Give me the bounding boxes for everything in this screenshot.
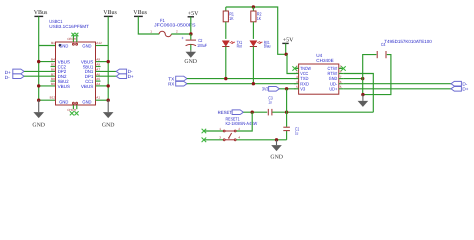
net flag D+ (far left) xyxy=(5,69,24,75)
svg-text:RESET: RESET xyxy=(218,110,233,115)
svg-text:GND: GND xyxy=(32,123,45,129)
svg-text:100uF: 100uF xyxy=(197,43,207,48)
power flag VBus (above A-side) xyxy=(103,10,117,17)
pin stub SBU2 xyxy=(51,80,56,82)
svg-text:VBUS: VBUS xyxy=(58,84,70,89)
wire A1 stub xyxy=(96,99,109,101)
svg-text:1: 1 xyxy=(150,30,152,34)
svg-text:JFC0603-0500FS: JFC0603-0500FS xyxy=(154,23,196,28)
node junction VBus-A4 xyxy=(107,84,110,87)
svg-text:2: 2 xyxy=(238,127,240,131)
node junction R2 top xyxy=(252,5,255,8)
svg-text:GND: GND xyxy=(184,59,197,65)
net flag D- (far left) xyxy=(5,74,24,80)
no-connect X switch pin1 xyxy=(202,129,207,134)
wire +5V to VCC pin xyxy=(287,54,296,73)
LED TX1 Rot xyxy=(222,40,242,79)
svg-text:D-: D- xyxy=(5,75,10,80)
wire +5V rail above R1 R2 xyxy=(226,7,287,54)
wire GND pin xyxy=(344,78,363,80)
resistor R1 1K xyxy=(223,7,234,39)
node junction RX1-RXD xyxy=(252,82,255,85)
svg-text:UD+: UD+ xyxy=(329,86,337,91)
wire VBus left rail xyxy=(38,16,40,100)
wire 3V3 to V3 pin xyxy=(279,88,295,90)
svg-text:VBus: VBus xyxy=(103,10,117,16)
svg-text:B6: B6 xyxy=(51,68,55,72)
no-connect X shield pin top xyxy=(71,33,75,37)
ground GND (below C2) xyxy=(184,50,197,65)
node junction switch drop xyxy=(251,111,254,114)
capacitor C1 1u xyxy=(283,127,299,140)
svg-text:3V3: 3V3 xyxy=(262,86,269,91)
svg-text:1: 1 xyxy=(219,127,221,131)
svg-text:CH340E: CH340E xyxy=(316,58,333,63)
power flag +5V (main) xyxy=(188,11,199,34)
svg-text:RX: RX xyxy=(168,82,174,87)
no-connect X CTS# xyxy=(341,66,346,71)
wire A12 stub xyxy=(96,45,109,47)
ground (below U4) xyxy=(358,95,369,107)
svg-text:GND: GND xyxy=(59,99,69,104)
svg-text:V3: V3 xyxy=(300,86,305,91)
svg-text:T495D157K010ATE100: T495D157K010ATE100 xyxy=(384,39,432,44)
wire B12 stub xyxy=(39,99,56,101)
svg-text:Rot: Rot xyxy=(237,44,243,49)
connector USBC1 USB3.1C16PF5MT xyxy=(49,19,102,112)
wire RTS# to reset line xyxy=(344,74,374,113)
svg-text:Blau: Blau xyxy=(264,44,271,49)
node junction +5V C2 xyxy=(189,32,192,35)
power flag +5V (VCC feed) xyxy=(282,38,294,55)
svg-text:B7: B7 xyxy=(51,72,55,76)
svg-text:4: 4 xyxy=(238,136,240,140)
svg-text:GND: GND xyxy=(102,123,115,129)
node junction B12 xyxy=(37,99,40,102)
pin stub CC2 xyxy=(51,66,56,68)
wire V3 decoupling drop xyxy=(286,89,288,127)
svg-text:+5V: +5V xyxy=(188,11,199,17)
svg-text:C4: C4 xyxy=(381,42,386,47)
node junction +5V VCC xyxy=(285,53,288,56)
capacitor C2 100uF xyxy=(181,34,207,50)
LED RX1 Blau xyxy=(250,40,271,84)
svg-text:2: 2 xyxy=(176,30,178,34)
wire reset line left of C3 xyxy=(243,111,267,113)
power flag VBus (top left) xyxy=(34,10,48,17)
wire DN2 to D- flag xyxy=(24,75,55,77)
svg-text:GND: GND xyxy=(270,154,283,160)
wire VBUS A9 row xyxy=(96,61,109,63)
wire DP2 to D+ flag xyxy=(24,70,55,72)
no-connect X TNOW xyxy=(292,66,297,71)
node junction GND arrow xyxy=(361,93,364,96)
net flag D+ (far right) xyxy=(451,87,469,92)
capacitor C3 1u xyxy=(268,96,273,116)
net flag 3V3 xyxy=(262,86,279,91)
pin stub CC1 xyxy=(96,80,101,82)
wire UD+ line xyxy=(344,88,451,90)
svg-text:B4: B4 xyxy=(51,58,55,62)
IC U4 CH340E xyxy=(294,53,343,94)
wire reset line right of C3 xyxy=(272,111,373,113)
svg-text:D+: D+ xyxy=(462,87,468,92)
fuse F1 JFC0603-0500FS xyxy=(150,18,195,37)
svg-text:CECH: CECH xyxy=(67,37,76,41)
node junction C1 top xyxy=(285,111,288,114)
net flag D- (far right) xyxy=(451,81,468,86)
capacitor C4 T495D157K010ATE100 xyxy=(363,39,433,95)
wire DP1 to D+ flag xyxy=(96,75,117,77)
wire B1 stub xyxy=(39,45,56,47)
ground GND (bottom) xyxy=(270,140,283,161)
power flag VBus (fuse input) xyxy=(133,10,147,17)
net flag D+ (right of connector) xyxy=(116,74,134,79)
net flag RESET xyxy=(218,110,244,115)
svg-text:D+: D+ xyxy=(128,74,134,79)
svg-text:B9: B9 xyxy=(51,82,55,86)
svg-text:+: + xyxy=(181,36,184,41)
wire fuse to +5V node xyxy=(171,33,191,35)
svg-text:3: 3 xyxy=(219,136,221,140)
wire UD- line xyxy=(344,83,451,85)
wire DN1 to D- flag xyxy=(96,70,117,72)
wire VBUS B9 row xyxy=(39,85,56,87)
node junction VBus-B4 xyxy=(37,60,40,63)
no-connect X switch pin3 xyxy=(202,138,207,143)
svg-text:GND: GND xyxy=(82,44,92,49)
svg-text:GND: GND xyxy=(59,44,69,49)
no-connect X shield pin left xyxy=(70,111,74,115)
wire VBUS B4 row xyxy=(39,61,56,63)
pin stub SBU1 xyxy=(96,66,101,68)
svg-text:USBC1: USBC1 xyxy=(49,19,63,24)
svg-text:1K: 1K xyxy=(257,16,261,21)
svg-text:USB3.1C16PF5MT: USB3.1C16PF5MT xyxy=(49,24,89,29)
svg-text:VBus: VBus xyxy=(34,10,48,16)
node junction GND rail xyxy=(275,138,278,141)
svg-text:GND: GND xyxy=(82,99,92,104)
node junction TX1-TXD xyxy=(224,77,227,80)
node junction A1 xyxy=(107,99,110,102)
wire RXD line xyxy=(187,83,296,85)
node junction V3-C1 xyxy=(285,87,288,90)
svg-text:+5V: +5V xyxy=(283,38,294,44)
no-connect X shield pin right xyxy=(74,111,78,115)
node junction VBus-A9 xyxy=(107,60,110,63)
svg-text:B1: B1 xyxy=(51,41,55,45)
svg-text:1u: 1u xyxy=(268,100,272,105)
wire GND drop xyxy=(362,79,364,95)
ground GND (right of USBC1) xyxy=(102,100,115,128)
svg-text:VBus: VBus xyxy=(133,10,147,16)
net flag D- (right of connector) xyxy=(116,69,133,74)
node junction VBus-B9 xyxy=(37,84,40,87)
wire TXD line xyxy=(187,78,296,80)
wire VBUS A4 row xyxy=(96,85,109,87)
wire VBus right rail xyxy=(107,16,109,100)
net flag TX xyxy=(168,76,187,81)
svg-text:A1: A1 xyxy=(96,95,100,99)
svg-text:VBUS: VBUS xyxy=(81,84,93,89)
node junction GND-C4 xyxy=(361,77,364,80)
wire VBus to fuse xyxy=(138,16,159,34)
svg-text:B12: B12 xyxy=(50,95,56,99)
svg-text:1K: 1K xyxy=(229,16,233,21)
net flag RX xyxy=(168,81,187,86)
switch RESET1 K2-1808SN-A4SW xyxy=(204,112,287,141)
resistor R2 1K xyxy=(251,7,262,39)
ground GND (left of USBC1) xyxy=(32,100,45,128)
svg-text:1u: 1u xyxy=(295,130,299,135)
svg-text:K2-1808SN-A4SW: K2-1808SN-A4SW xyxy=(226,121,258,126)
svg-text:A12: A12 xyxy=(96,41,102,45)
